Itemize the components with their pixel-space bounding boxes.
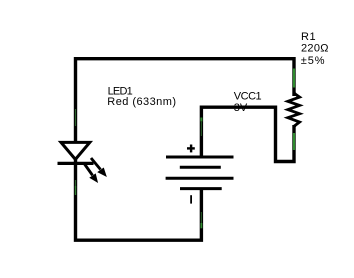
- battery VCC1: plate 3 (long): [166, 177, 234, 180]
- wire: battery positive up, right to corner, down, right to R1 bottom: [201, 107, 294, 161]
- pin (green): R1 top lead: [293, 69, 295, 88]
- svg-text:220Ω: 220Ω: [301, 43, 329, 55]
- LED D1: cathode bar: [58, 162, 94, 165]
- svg-text:±5%: ±5%: [301, 55, 326, 67]
- LED D1: triangle (anode): [61, 142, 90, 159]
- pin (green): LED1 top lead: [75, 109, 77, 126]
- pin (green): VCC1 positive lead: [200, 118, 202, 122]
- battery VCC1: plate 2 (short): [180, 166, 221, 169]
- wire: LED1 cathode down, bottom wire, up to battery negative: [76, 158, 202, 240]
- battery VCC1: plate 4 (short, negative): [180, 187, 222, 190]
- LED D1: emission arrow 2 (lower): [85, 164, 93, 175]
- wire: top net from LED1 anode up, across top, down to R1: [76, 59, 295, 142]
- svg-text:R1: R1: [301, 31, 316, 43]
- resistor R1: zigzag body: [288, 93, 300, 128]
- svg-text:VCC1: VCC1: [234, 91, 262, 103]
- pin (green): VCC1 negative lead: [200, 212, 202, 223]
- battery VCC1: plus marker: [187, 147, 195, 149]
- pin (green): R1 bottom lead: [293, 133, 295, 150]
- pin (green): LED1 bottom lead: [75, 180, 77, 188]
- svg-text:Red (633nm): Red (633nm): [107, 96, 176, 108]
- LED D1: emission arrow 1 (upper): [91, 158, 101, 170]
- battery VCC1: plate 1 (long, positive): [166, 156, 234, 159]
- battery VCC1: minus marker (vertical bar): [190, 195, 192, 203]
